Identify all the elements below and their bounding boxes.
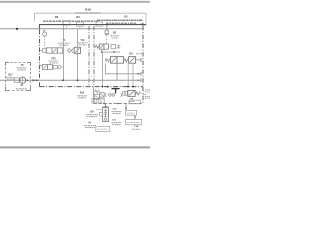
node dots on boundary (102, 86, 104, 88)
annotation row right 1 (97, 19, 143, 21)
brake valve ports (123, 92, 125, 96)
cooler valve cell 1 (43, 65, 48, 70)
V3 out line (136, 59, 141, 61)
coupling box (100, 93, 104, 97)
right outside labels (145, 89, 150, 91)
boundary dash-dot x40 (39, 30, 41, 87)
valve V1 cell 2 (52, 48, 57, 53)
node on pipe x107 (106, 24, 108, 26)
svg-text:TP1: TP1 (51, 57, 56, 60)
valve V1 arrow (53, 49, 56, 52)
tiny text left of cylinder neck (96, 109, 102, 111)
top page edge rule (0, 1, 150, 3)
drop line x64 (63, 25, 65, 81)
relief spring (95, 45, 99, 48)
svg-text:B10: B10 (80, 93, 85, 95)
work line B (116, 63, 118, 80)
V1 inlet tick (40, 50, 42, 52)
pump circle P1 (20, 77, 26, 83)
valve V1 cell 1 (47, 48, 52, 53)
valve V2 cell 2 (117, 57, 124, 64)
drop arrowhead (125, 108, 127, 111)
title caption (76, 12, 101, 14)
caption box on line (130, 100, 141, 104)
boundary dash-dot x94 (93, 26, 95, 87)
V3 drains to manifold (127, 63, 129, 86)
V2 left spring (106, 59, 110, 62)
note box under filter (92, 98, 104, 103)
measuring connection (72, 49, 74, 53)
cylinder left tap (100, 112, 103, 116)
boundary dash-dot x89 (88, 26, 90, 87)
relief valve cell 2 (104, 44, 109, 49)
V1 pilot square (42, 49, 46, 53)
manifold left edge (93, 87, 95, 104)
small box (53, 65, 57, 68)
valve V1 cell 3 (57, 48, 62, 53)
svg-text:B18: B18 (85, 8, 91, 12)
check valve symbol (105, 30, 109, 34)
filter box (94, 94, 99, 99)
boundary dash-dot bottom y86.6 (40, 86, 144, 88)
node on pipe x64 (63, 24, 65, 26)
annotation row right 2 (106, 22, 137, 24)
cooler spring (39, 64, 43, 66)
svg-text:B5: B5 (124, 14, 128, 18)
drop line x77.5 (77, 29, 79, 81)
relief valve cell 1 (99, 44, 104, 49)
suction box (15, 78, 20, 83)
cooler valve cell 2 (48, 65, 53, 70)
node x17 (16, 28, 18, 30)
tick box1 to pipe (66, 25, 68, 29)
dark T port (112, 88, 120, 90)
pipe end tick (142, 23, 144, 27)
pilot bracket marks (117, 45, 119, 48)
brake valve body (128, 90, 135, 96)
tick to drop line (61, 66, 64, 68)
main pressure pipe (40, 25, 147, 30)
cooler arrow (44, 65, 47, 68)
pilot box (111, 44, 115, 48)
tank assembly dashed box (6, 63, 31, 91)
valve symbol box on pipe 3 (96, 22, 103, 26)
drain drop (102, 52, 104, 87)
tank box corner brackets (6, 63, 10, 67)
drop from box corner (125, 104, 127, 111)
end nodes right (137, 73, 139, 75)
svg-text:B6: B6 (76, 15, 80, 19)
box right of Y6 (96, 126, 110, 131)
small circle gauge (58, 66, 61, 69)
pump out arrow (27, 80, 29, 82)
check valve drop x107 (106, 25, 108, 30)
boundary dash-dot x143 (142, 26, 144, 104)
hose box 1 (126, 110, 137, 115)
work line A (105, 64, 141, 74)
check valve after V1 (67, 49, 71, 53)
relief arrow (100, 45, 103, 48)
svg-text:Y10: Y10 (80, 39, 85, 42)
pilot link dashed (109, 46, 112, 48)
hose box 2 (126, 119, 142, 124)
filter spring (95, 90, 100, 93)
connector down (134, 115, 136, 119)
coupling marks (104, 93, 107, 97)
enclosure B18 top frame (35, 13, 147, 26)
accumulator cylinder (105, 104, 107, 108)
brake valve spring (136, 92, 141, 95)
valve V2 cell 1 (110, 57, 117, 64)
under-relief link (101, 49, 103, 52)
valve V3 (129, 57, 136, 64)
sampling valve circle (43, 32, 47, 36)
valve symbol box on pipe 1 (63, 21, 70, 25)
annotation row left (43, 20, 98, 22)
svg-text:B17: B17 (8, 74, 13, 76)
return line to tank (0, 79, 141, 81)
svg-text:B8: B8 (55, 15, 59, 19)
pilot dashed line (44, 36, 46, 48)
LS supply line (0, 28, 143, 30)
Y10 valve box (74, 47, 80, 53)
bottom page edge rule (0, 146, 150, 148)
manifold bottom edge (94, 103, 144, 105)
spring V2 (124, 59, 129, 62)
valve symbol box on pipe 2 (77, 22, 84, 26)
node x64 LS (63, 28, 65, 30)
tick box2 to pipe (79, 26, 81, 29)
